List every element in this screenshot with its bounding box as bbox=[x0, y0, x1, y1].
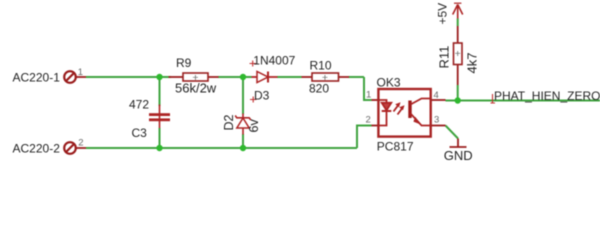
svg-text:1N4007: 1N4007 bbox=[253, 54, 295, 68]
svg-text:D2: D2 bbox=[222, 114, 236, 130]
svg-text:C3: C3 bbox=[132, 126, 148, 140]
svg-text:6v: 6v bbox=[247, 119, 261, 133]
svg-text:R11: R11 bbox=[437, 46, 452, 69]
svg-text:PC817: PC817 bbox=[377, 139, 414, 153]
svg-text:4: 4 bbox=[434, 90, 439, 101]
svg-text:+5V: +5V bbox=[436, 3, 450, 25]
svg-text:1: 1 bbox=[78, 67, 83, 78]
svg-text:OK3: OK3 bbox=[377, 75, 401, 89]
svg-text:R9: R9 bbox=[176, 56, 192, 70]
svg-text:2: 2 bbox=[366, 114, 371, 125]
svg-text:56k/2w: 56k/2w bbox=[175, 81, 217, 96]
svg-text:1: 1 bbox=[366, 90, 371, 101]
svg-text:R10: R10 bbox=[310, 59, 332, 73]
svg-text:AC220-1: AC220-1 bbox=[13, 71, 61, 85]
svg-text:4k7: 4k7 bbox=[465, 53, 480, 74]
svg-text:AC220-2: AC220-2 bbox=[13, 142, 61, 156]
svg-text:820: 820 bbox=[309, 82, 329, 96]
svg-text:PHAT_HIEN_ZERO: PHAT_HIEN_ZERO bbox=[494, 89, 600, 103]
svg-text:472: 472 bbox=[129, 98, 149, 112]
svg-text:3: 3 bbox=[434, 115, 439, 126]
svg-text:2: 2 bbox=[78, 138, 83, 149]
svg-text:+: + bbox=[455, 48, 461, 60]
svg-text:D3: D3 bbox=[254, 89, 270, 103]
svg-text:GND: GND bbox=[444, 148, 473, 162]
